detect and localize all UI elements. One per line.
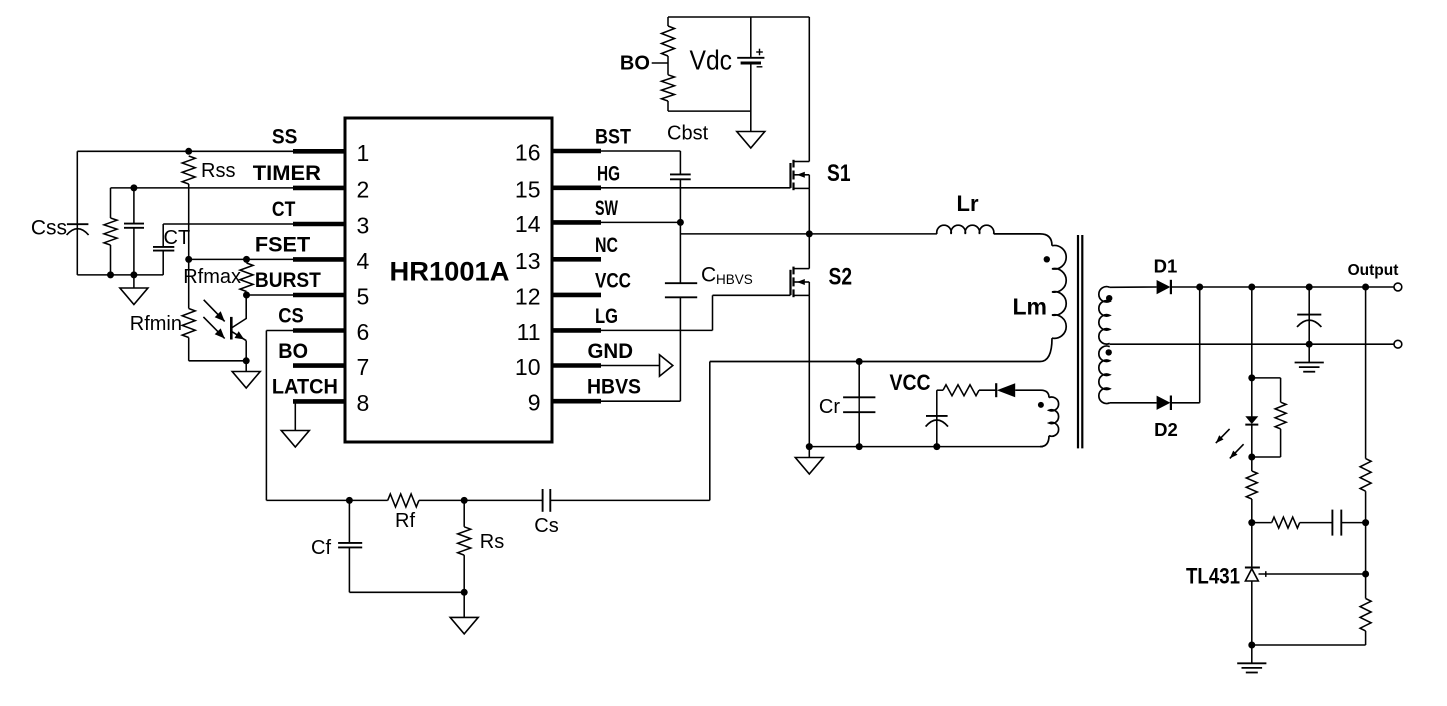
svg-text:9: 9 (528, 390, 541, 416)
svg-text:Rf: Rf (395, 510, 415, 532)
node Cf junction (346, 497, 353, 504)
wire D2 to riser (1171, 402, 1200, 404)
node emitter/Rfmin (243, 357, 250, 364)
wire Cr top (858, 362, 860, 398)
terminal output positive (1394, 283, 1402, 291)
inductor secondary upper winding (1099, 287, 1110, 344)
wire CT pin3 (163, 223, 293, 225)
svg-text:NC: NC (595, 234, 618, 257)
opto light arrow 1 (204, 300, 225, 322)
wire D2 riser (1199, 287, 1201, 403)
svg-text:HBVS: HBVS (587, 376, 641, 399)
svg-text:S2: S2 (829, 264, 853, 291)
node LED bottom (1248, 454, 1255, 461)
wire LED anode (1251, 378, 1253, 417)
svg-text:BURST: BURST (255, 269, 321, 292)
svg-text:S1: S1 (827, 160, 851, 187)
wire VCC cap bottom (936, 416, 938, 447)
wire secondary center tap (1110, 343, 1394, 345)
node SW/Cbst (677, 219, 684, 226)
capacitor CHBVS plates (665, 282, 697, 284)
transistor S2 body arrow (794, 281, 810, 283)
svg-text:C: C (701, 264, 716, 287)
svg-text:CS: CS (278, 305, 304, 328)
svg-text:Cf: Cf (311, 537, 331, 559)
svg-text:8: 8 (357, 390, 370, 416)
wire divider bottom (1365, 631, 1367, 645)
svg-text:LG: LG (595, 305, 618, 328)
capacitor Cs plates (542, 489, 544, 512)
wire TL431 ref (1259, 573, 1366, 575)
svg-text:BO: BO (278, 340, 308, 363)
opto emit arrow 1 (1216, 429, 1230, 443)
wire ground stem (primary) (808, 447, 810, 458)
ground arrow (GND pin) (660, 355, 673, 376)
inductor Lr (937, 225, 994, 234)
op-amp U1 HR1001A controller IC body (345, 118, 552, 442)
svg-text:Lr: Lr (957, 191, 979, 216)
svg-text:5: 5 (357, 284, 370, 310)
transistor S1 body arrow (794, 174, 810, 176)
wire divider top (1365, 287, 1367, 459)
resistor Rf (388, 494, 419, 507)
pin 15 stub (HG) (552, 186, 601, 191)
pin 4 stub (FSET) (293, 257, 345, 262)
wire Vdc top (750, 17, 752, 58)
node divider top (1362, 284, 1369, 291)
transistor S2 drain lead (794, 268, 810, 270)
pin 3 stub (CT) (293, 222, 345, 227)
diode LED (optocoupler) (1245, 416, 1258, 424)
wire Rfmax to BURST (246, 292, 248, 296)
opto emit arrow 2 (1230, 444, 1244, 458)
TL431 ref tick (1265, 571, 1267, 577)
node SW/S1 source (806, 230, 813, 237)
svg-text:HG: HG (597, 162, 620, 185)
node secondary lower phase dot (1106, 349, 1112, 355)
svg-text:7: 7 (357, 354, 370, 380)
transistor Q1 bar (230, 317, 233, 340)
node LED top (1248, 374, 1255, 381)
wire timer resistor to rail (110, 245, 112, 275)
wire emitter down (245, 341, 247, 361)
ground (primary) (795, 458, 823, 475)
resistor BO lower (662, 75, 675, 101)
svg-text:Vdc: Vdc (690, 45, 733, 76)
earth ground (output) (1295, 362, 1324, 364)
pin 14 stub (SW) (552, 220, 601, 225)
battery Vdc plates (737, 57, 764, 59)
svg-text:3: 3 (357, 213, 370, 239)
svg-text:LATCH: LATCH (272, 376, 338, 399)
svg-text:Rfmin: Rfmin (130, 313, 182, 335)
svg-text:TL431: TL431 (1186, 564, 1240, 589)
svg-text:Output: Output (1348, 262, 1399, 279)
svg-text:TIMER: TIMER (253, 162, 321, 185)
node output cap top (1306, 284, 1313, 291)
wire S1 source join (808, 175, 810, 189)
node rail/timer-res (107, 271, 114, 278)
wire opto branch vertical (1251, 287, 1253, 378)
ground (left network) (120, 288, 148, 305)
wire primary ground rail (809, 446, 1043, 448)
svg-text:12: 12 (515, 283, 541, 309)
wire LG pin11 (601, 329, 713, 331)
wire S2 source to ground rail (808, 295, 810, 446)
wire BO node (667, 56, 669, 75)
node aux phase dot (1038, 402, 1044, 408)
wire S2 source join (808, 282, 810, 295)
wire BO divider top (667, 17, 669, 26)
resistor Rfmin (182, 309, 195, 338)
pin 8 stub (LATCH) (293, 399, 345, 404)
wire CT branch down (162, 224, 164, 247)
wire LG to S2 gate (713, 294, 791, 296)
wire VCC node stub (936, 390, 938, 416)
resistor timer (unlabelled) (104, 218, 117, 245)
pin 11 stub (LG) (552, 328, 601, 333)
TL431 triangle (1245, 569, 1258, 581)
wire divider middle (1365, 491, 1367, 598)
wire CS bottom rail (266, 499, 387, 501)
svg-text:1: 1 (357, 140, 370, 166)
wire SW pin14 (601, 221, 680, 223)
svg-text:13: 13 (515, 248, 541, 274)
transistor S2 channel bar (792, 267, 794, 275)
wire Cf bottom (348, 547, 350, 592)
inductor aux winding (1049, 397, 1059, 436)
pin 5 stub (BURST) (293, 293, 345, 298)
node Cr/ground rail (856, 443, 863, 450)
wire timer branch left/down (110, 188, 112, 218)
capacitor Css top plate (67, 223, 89, 225)
resistor Rfmax (240, 263, 253, 292)
node SS/Rss junction (185, 148, 192, 155)
wire Rfmin bottom (188, 338, 190, 361)
diode D1 (1157, 280, 1171, 294)
transistor S2 source lead (794, 294, 810, 296)
wire TL431 anode (1251, 581, 1253, 645)
svg-text:11: 11 (517, 319, 541, 345)
svg-text:CT: CT (164, 227, 191, 249)
wire output cap top (1308, 287, 1310, 315)
wire D1 to output rail (1171, 286, 1200, 288)
node FSET/Rss (185, 256, 192, 263)
resistor LED bypass (1275, 402, 1286, 429)
pin 2 stub (TIMER) (293, 186, 345, 191)
wire LATCH ground stem (294, 401, 296, 430)
resistor Rs top wire (463, 500, 465, 526)
svg-text:14: 14 (515, 211, 541, 237)
wire LG riser (712, 295, 714, 330)
wire to TL431 node (1251, 499, 1253, 523)
wire secondary top lead (1110, 286, 1157, 288)
svg-text:Rs: Rs (480, 531, 504, 553)
capacitor output filter curved plate (1297, 320, 1321, 327)
wire Rfmin top (188, 259, 190, 308)
node comp/divider (1362, 519, 1369, 526)
svg-text:VCC: VCC (890, 370, 931, 395)
wire to Cs (464, 499, 542, 501)
node VCC cap/rail (933, 443, 940, 450)
node FSET/Rfmax (243, 256, 250, 263)
svg-text:BO: BO (620, 53, 650, 75)
svg-text:16: 16 (515, 140, 541, 166)
wire BURST pin5 (247, 294, 294, 296)
resistor divider lower (1360, 599, 1371, 631)
wire CT cap to rail (162, 251, 164, 275)
wire S2 drain from SW (808, 234, 810, 269)
resistor LED series (1246, 471, 1257, 499)
wire Rs bottom (463, 555, 465, 592)
wire SS pin1 to left rail (77, 150, 293, 152)
transistor S2 gate bar (789, 270, 791, 295)
wire output cap bottom (1308, 315, 1310, 345)
node secondary upper phase dot (1106, 295, 1112, 301)
capacitor CT plates (153, 246, 174, 248)
svg-text:SW: SW (595, 197, 618, 220)
wire left bottom rail (77, 274, 163, 276)
node TL431 compensation (1248, 519, 1255, 526)
wire TL431 cathode (1251, 523, 1253, 568)
wire riser to Cr node (709, 362, 711, 501)
wire BO divider bottom (667, 101, 669, 111)
wire comp middle (1300, 522, 1333, 524)
wire ground stem (opto) (245, 361, 247, 371)
svg-text:6: 6 (357, 319, 370, 345)
wire secondary bottom lead (1110, 402, 1157, 404)
wire ground stem (sense) (463, 592, 465, 617)
pin 12 stub (VCC) (552, 293, 601, 298)
wire CS vertical (265, 331, 267, 501)
wire S1 drain rail (808, 17, 810, 162)
opto light arrow 2 (203, 317, 224, 339)
svg-text:4: 4 (357, 248, 370, 274)
wire LED cathode (1251, 425, 1253, 457)
pin 7 stub (BO) (293, 363, 345, 368)
transistor S1 drain lead (794, 161, 810, 163)
pin 9 stub (HBVS) (552, 399, 601, 404)
wire Lr right to Lm top (994, 234, 1052, 246)
wire comp right (1341, 522, 1365, 524)
wire Css to bottom rail (76, 224, 78, 275)
earth ground (TL431) (1237, 662, 1266, 664)
svg-text:VCC: VCC (595, 269, 631, 292)
capacitor Css curved plate (67, 229, 89, 235)
wire SW jog down (679, 222, 681, 283)
diode VCC rectifier (997, 383, 1015, 397)
wire LED bypass bottom (1280, 429, 1282, 457)
wire diode to aux winding (1015, 390, 1049, 397)
wire Cf top (348, 500, 350, 543)
transistor S1 channel bar (792, 160, 794, 168)
ground (opto emitter) (232, 372, 260, 389)
wire FSET pin4 (189, 258, 293, 260)
transformer core lines (1077, 235, 1079, 448)
node BURST/collector (243, 292, 250, 299)
pin 16 stub (BST) (552, 149, 601, 154)
svg-text:GND: GND (588, 340, 634, 363)
svg-text:Cr: Cr (819, 396, 840, 418)
svg-text:CT: CT (272, 198, 296, 221)
wire ground stem (133, 275, 135, 288)
wire GND pin10 (601, 365, 660, 367)
svg-text:2: 2 (357, 176, 370, 202)
battery plus sign (759, 49, 761, 56)
wire aux bottom (1040, 436, 1049, 447)
wire TIMER pin2 (111, 187, 294, 189)
node D1/D2 junction (1196, 284, 1203, 291)
node ref/divider (1362, 571, 1369, 578)
inductor secondary lower winding (1099, 346, 1110, 403)
wire Vdc bottom (750, 63, 752, 132)
capacitor timer (unlabelled) plates (124, 223, 144, 225)
pin 6 stub (CS) (293, 328, 345, 333)
node TIMER junction (130, 184, 137, 191)
wire Rf to Rs node (419, 499, 464, 501)
wire Cbst top (679, 151, 681, 174)
node Cr top junction (856, 358, 863, 365)
wire cap branch down (133, 188, 135, 224)
transistor S1 gate bar (789, 163, 791, 188)
wire earth stem (TL431) (1251, 645, 1253, 663)
svg-text:Lm: Lm (1013, 294, 1048, 320)
node center tap/cap (1306, 341, 1313, 348)
svg-text:Rfmax: Rfmax (183, 266, 241, 288)
wire Cr bottom (858, 412, 860, 446)
resistor Rs (458, 527, 471, 555)
inductor Lm primary winding (1052, 245, 1066, 338)
transistor S1 source lead (794, 187, 810, 189)
terminal output return (1394, 340, 1402, 348)
resistor Rss (182, 156, 195, 184)
wire BST to Cbst (601, 150, 680, 152)
capacitor Cr plates (843, 396, 875, 398)
svg-text:HBVS: HBVS (716, 272, 753, 287)
wire between Cr plates (858, 397, 860, 412)
wire Cs to riser (550, 499, 710, 501)
wire left rail down to Css (76, 151, 78, 224)
resistor BO upper (662, 26, 675, 56)
wire cap to rail (133, 228, 135, 275)
capacitor Cbst plates (670, 173, 691, 175)
wire LED bypass top (1252, 377, 1281, 379)
transistor Q1 opto phototransistor collector (232, 295, 246, 328)
pin 10 stub (GND) (552, 363, 601, 368)
svg-text:Rss: Rss (201, 160, 235, 182)
capacitor Cf plates (338, 542, 362, 544)
ground (Vdc) (737, 132, 765, 149)
wire resistor to diode (979, 389, 996, 391)
ground (LATCH pin8) (281, 431, 309, 448)
capacitor VCC top plate (926, 415, 948, 417)
capacitor output filter top plate (1297, 314, 1321, 316)
svg-text:Cbst: Cbst (667, 123, 709, 145)
node TL431 anode/return (1248, 642, 1255, 649)
svg-text:10: 10 (515, 354, 541, 380)
node primary phase dot (1044, 256, 1050, 262)
svg-text:Css: Css (31, 217, 67, 240)
svg-text:Cs: Cs (534, 515, 558, 537)
wire Lm bottom to rail (710, 338, 1052, 361)
node S2 source/rail (806, 443, 813, 450)
svg-text:D2: D2 (1154, 419, 1178, 440)
node rail/timer-cap (130, 271, 137, 278)
wire earth stem (output) (1308, 344, 1310, 362)
svg-text:SS: SS (272, 126, 298, 149)
node Rs/Cf ground (461, 589, 468, 596)
wire output rail (1200, 286, 1394, 288)
wire top rail (668, 16, 809, 18)
resistor VCC series (937, 389, 943, 391)
svg-text:HR1001A: HR1001A (390, 256, 510, 286)
wire HG to S1 gate (601, 187, 791, 189)
wire CHBVS to HBVS pin (679, 297, 681, 401)
wire BO stub (652, 62, 668, 64)
pin 1 stub (SS) (293, 149, 345, 154)
node opto branch (1248, 284, 1255, 291)
battery minus sign (757, 66, 763, 68)
capacitor VCC curved plate (926, 420, 948, 427)
svg-text:15: 15 (515, 176, 541, 202)
capacitor compensation plates (1331, 510, 1333, 536)
wire Cbst bottom to SW node (679, 179, 681, 222)
wire Rss bottom to FSET node (188, 184, 190, 259)
wire LED lower (1251, 457, 1253, 471)
transistor Q1 emitter (232, 332, 246, 341)
node Rs junction (461, 497, 468, 504)
diode D2 (1157, 396, 1171, 410)
wire S1 source to SW rail (808, 188, 810, 234)
TL431 cathode bar (1245, 567, 1260, 569)
svg-text:D1: D1 (1154, 256, 1178, 277)
svg-text:BST: BST (595, 126, 631, 149)
svg-text:FSET: FSET (255, 234, 310, 257)
resistor divider upper (1360, 459, 1371, 492)
wire comp left (1252, 522, 1272, 524)
wire CS pin6 left (266, 330, 293, 332)
pin 13 stub (NC) (552, 257, 601, 262)
wire SW rail (680, 233, 937, 235)
ground (sense network) (450, 617, 478, 634)
resistor compensation (1272, 517, 1300, 528)
